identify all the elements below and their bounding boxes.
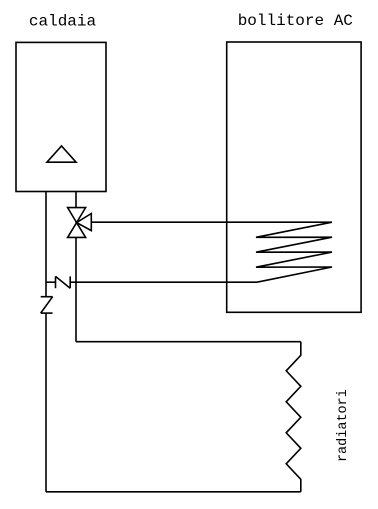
svg-text:bollitore AC: bollitore AC (238, 12, 353, 30)
boiler caldaia outline (16, 42, 106, 191)
wire: caldaia flow outlet down to valve (75, 192, 77, 208)
wire: tank return right of union to coil exit (70, 281, 257, 283)
check valve Z upper tick (41, 296, 53, 298)
heat-exchanger coil inside bollitore (256, 222, 332, 282)
svg-text:caldaia: caldaia (29, 12, 97, 30)
wire: valve lower port down (75, 237, 77, 341)
wire: radiator return bottom (46, 491, 301, 493)
check valve Z on return riser: lower tick (41, 312, 53, 314)
burner symbol (triangle) inside caldaia (47, 146, 76, 162)
wire: return riser below check valve (45, 313, 47, 492)
wire: tank return left of union (46, 281, 56, 283)
wire: return riser above check valve up to caldaia (45, 192, 47, 297)
union N diagonal (56, 276, 71, 288)
check valve Z diagonal (41, 297, 53, 313)
union N right tick (69, 276, 71, 288)
3-way valve V1 right triangle (77, 214, 92, 231)
svg-text:radiatori: radiatori (336, 389, 351, 462)
wire: valve to coil top (flow pipe to bollitore) (91, 221, 332, 223)
union N left tick (55, 276, 57, 288)
radiator zigzag (radiatori) (286, 342, 301, 492)
DHW tank bollitore AC outline (227, 42, 361, 312)
3-way valve V1 top triangle (68, 208, 86, 223)
3-way valve V1 bottom triangle (68, 223, 86, 238)
wire: flow to radiators (76, 341, 301, 343)
